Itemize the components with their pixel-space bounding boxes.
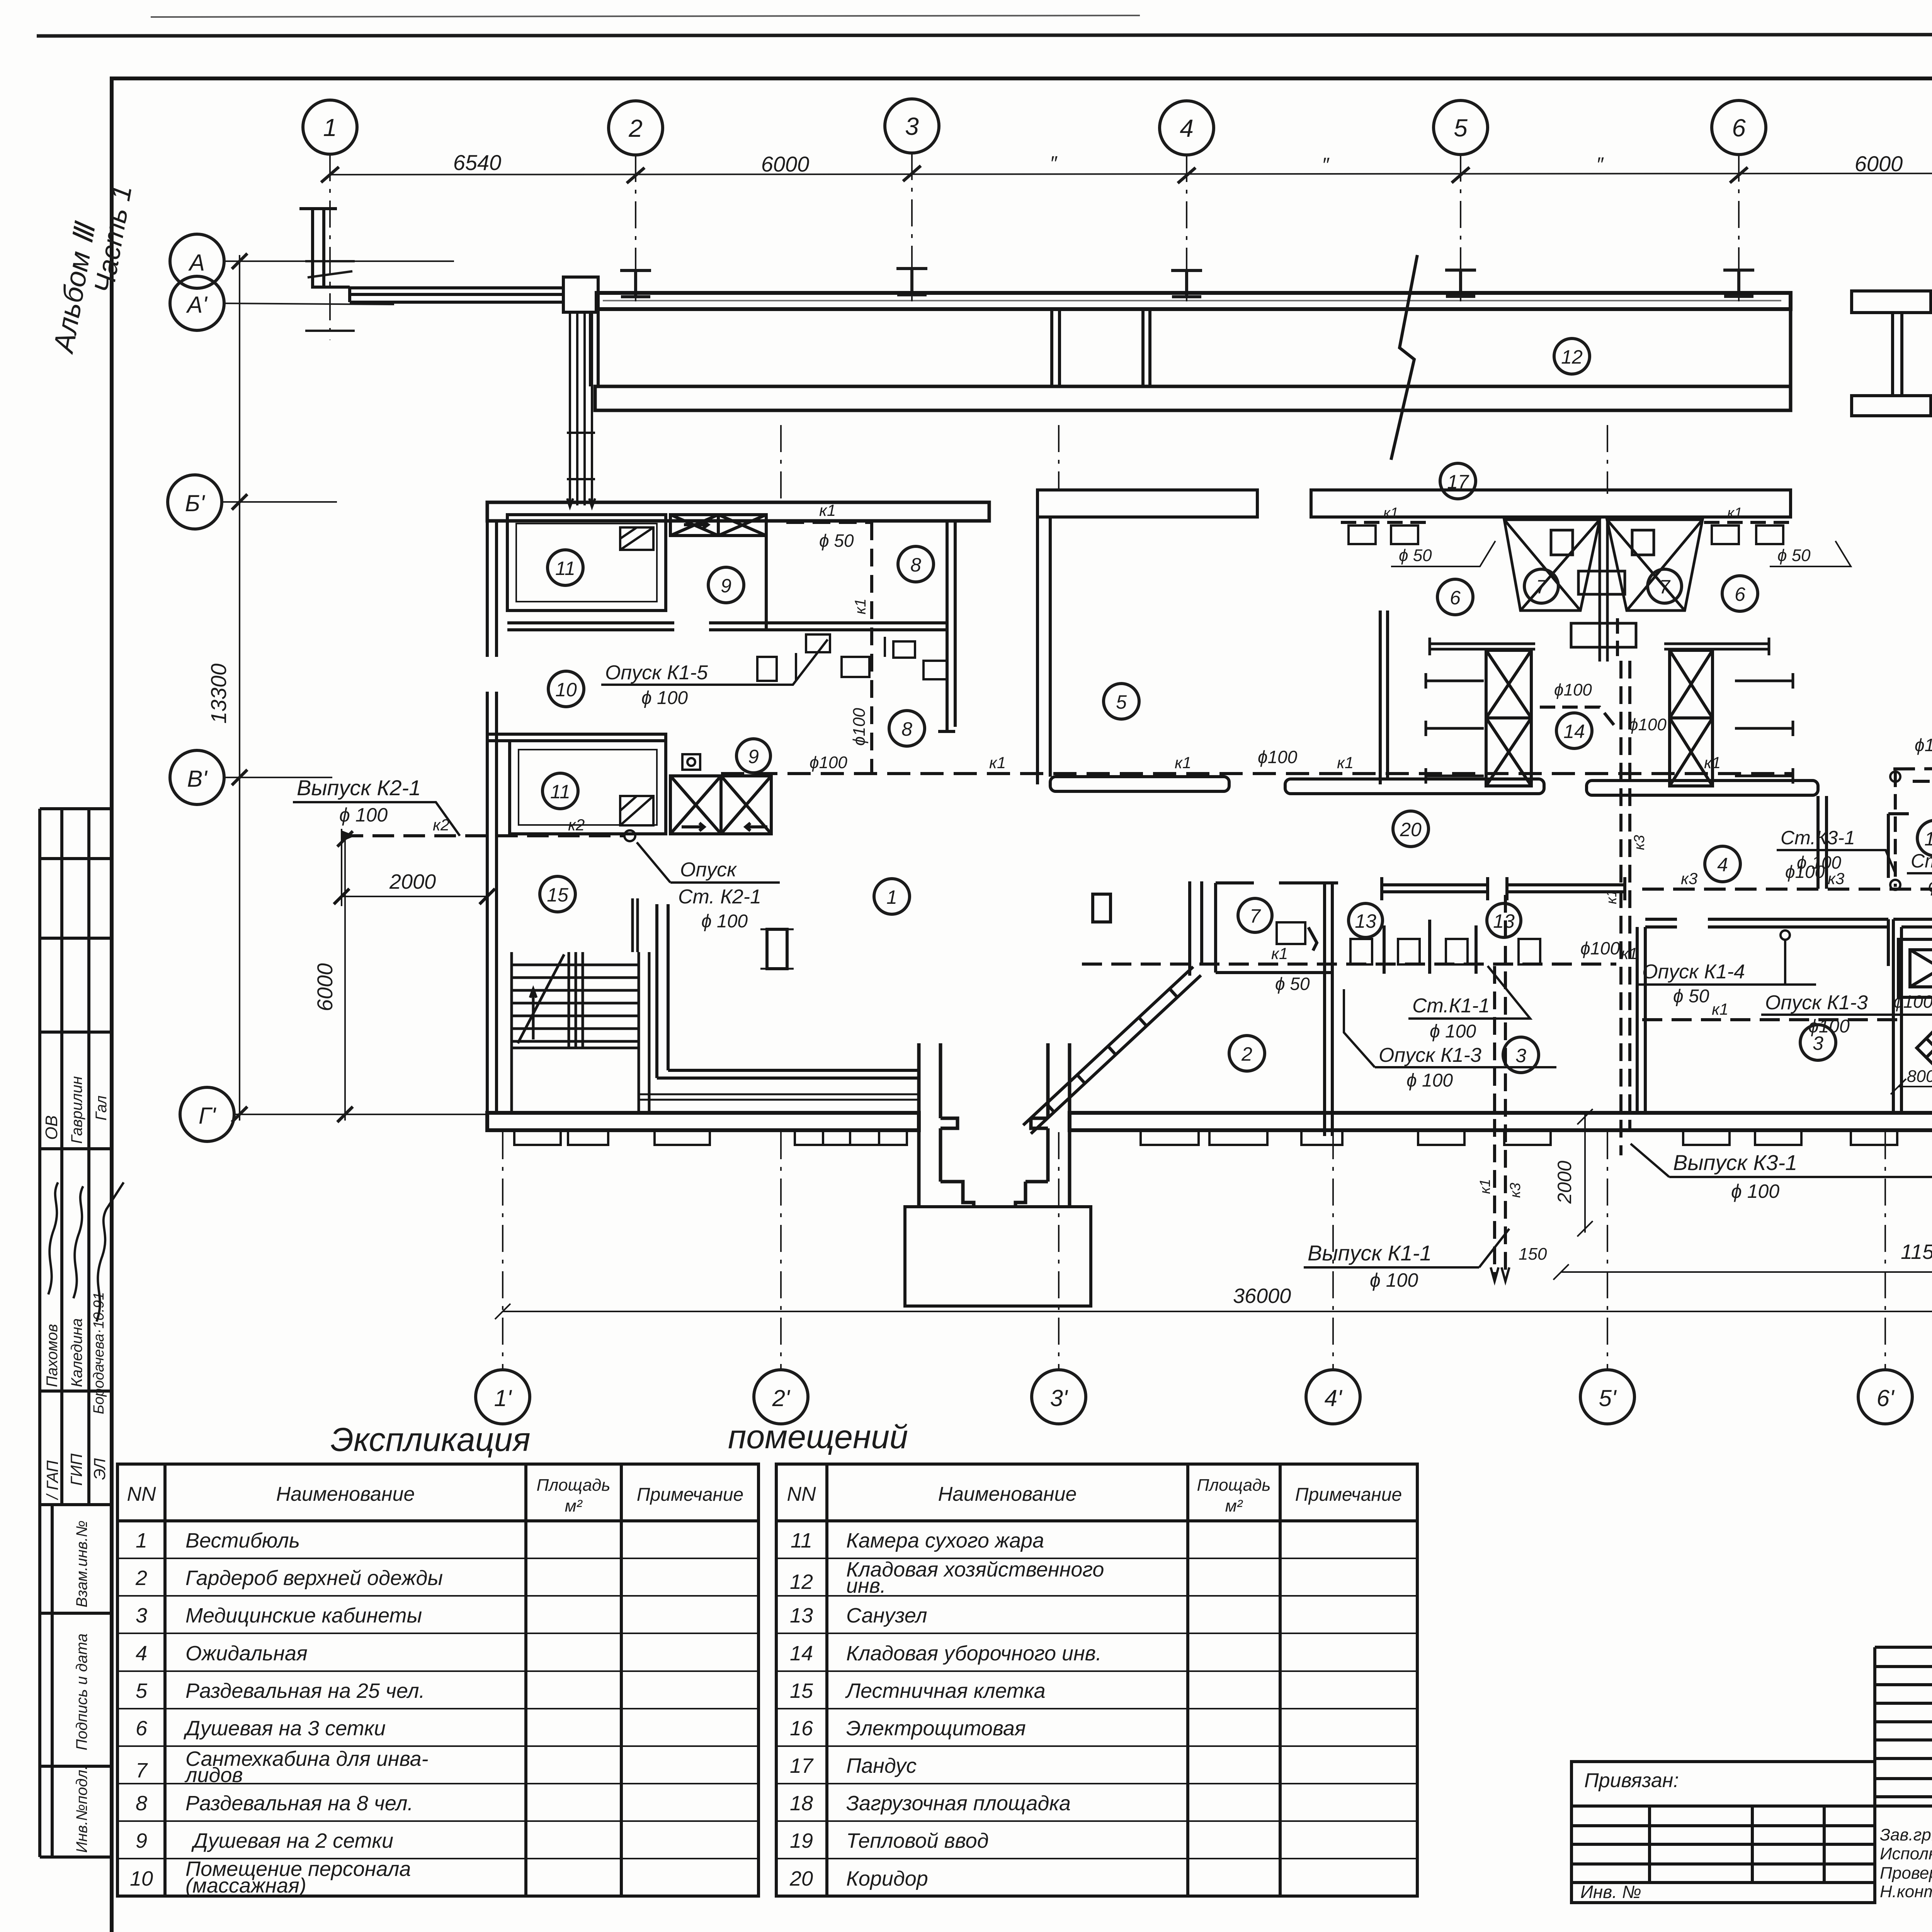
svg-text:(массажная): (массажная) [185, 1874, 306, 1897]
central partition with K1 stack [1571, 520, 1636, 662]
ticks on 13300 dim [232, 253, 247, 1122]
table 2 rows [789, 1529, 1104, 1890]
svg-text:Каледина: Каледина [68, 1318, 85, 1387]
west outer wall lower [487, 692, 497, 1128]
svg-text:к3: к3 [1507, 1183, 1524, 1198]
svg-text:Зав.гр.: Зав.гр. [1880, 1825, 1932, 1844]
axis А' leader line [224, 303, 394, 304]
svg-text:помещений: помещений [728, 1418, 908, 1456]
svg-text:Опуск К1-5: Опуск К1-5 [605, 662, 708, 684]
svg-text:3: 3 [136, 1604, 147, 1627]
wall B' main band: segment rooms5L top [1037, 490, 1257, 517]
room circle 7 cabin [1238, 898, 1272, 932]
room circle 6 right [1722, 576, 1758, 611]
table 2 grid [776, 1464, 1417, 1896]
corridor 20 top wall seg 2 [1285, 779, 1544, 794]
svg-text:NN: NN [127, 1483, 156, 1505]
axis circle 3 [885, 99, 939, 153]
svg-text:11: 11 [791, 1529, 812, 1552]
room circle 8 upper [898, 546, 934, 582]
svg-text:Наименование: Наименование [276, 1483, 415, 1505]
svg-text:Душевая на 3 сетки: Душевая на 3 сетки [184, 1717, 386, 1740]
axis circle 4 [1160, 101, 1214, 155]
svg-text:4: 4 [136, 1642, 147, 1665]
room 10 bottom wall [487, 734, 666, 741]
svg-text:ϕ100: ϕ100 [1629, 715, 1667, 734]
svg-text:Экспликация: Экспликация [330, 1421, 530, 1458]
svg-text:Инв.№подл.: Инв.№подл. [73, 1765, 90, 1853]
svg-text:5: 5 [1454, 114, 1468, 142]
room circle 11 lower [543, 773, 578, 809]
K3 pipe short run [1913, 780, 1932, 783]
svg-text:Ст.К1-1: Ст.К1-1 [1412, 995, 1490, 1017]
bench stubs room 6 left [1426, 673, 1484, 784]
svg-text:″: ″ [1322, 154, 1330, 176]
K1 riser vertical dashed [870, 522, 873, 774]
corner block at stair head [563, 277, 598, 312]
axis circle 2 [609, 101, 663, 155]
room circle 8 lower [889, 711, 925, 746]
room circle 2 [1229, 1036, 1265, 1071]
svg-text:Опуск К1-3: Опуск К1-3 [1765, 992, 1868, 1014]
svg-text:16: 16 [790, 1717, 813, 1740]
svg-text:11: 11 [555, 558, 575, 579]
svg-text:к3: к3 [1681, 869, 1697, 888]
svg-text:9: 9 [136, 1829, 147, 1852]
left vertical dimension line 13300 [239, 255, 240, 1121]
dim 2000 bottom center [1577, 1109, 1593, 1236]
svg-text:10: 10 [555, 679, 577, 701]
svg-text:Н.контр.: Н.контр. [1880, 1882, 1932, 1901]
svg-text:ϕ 50: ϕ 50 [1777, 546, 1811, 565]
svg-text:к1: к1 [852, 599, 869, 614]
axis circle 5 [1434, 100, 1488, 155]
svg-text:Опуск К1-3: Опуск К1-3 [1379, 1044, 1481, 1066]
sauna stove lower (hatched) [620, 796, 653, 825]
svg-text:9: 9 [748, 746, 759, 767]
svg-text:6: 6 [1732, 114, 1746, 142]
axis circle В' [170, 750, 224, 804]
K1 pipe from room 9 (dashed) [786, 521, 872, 524]
tall crossed closet left (room 14) [1486, 650, 1531, 786]
K1 riser center vertical [1616, 618, 1619, 663]
svg-text:к1: к1 [819, 501, 836, 519]
room 12 partition b [1143, 309, 1150, 386]
svg-text:6000: 6000 [761, 152, 810, 176]
svg-text:ϕ100: ϕ100 [1915, 735, 1932, 755]
axis circle 2' [754, 1370, 808, 1424]
K2 pipe run west [342, 834, 624, 837]
room circle 18 [1917, 820, 1932, 856]
axis stems to dimension line [330, 153, 1932, 340]
corridor wall under rooms 11/9 [507, 623, 947, 630]
svg-text:Площадь: Площадь [1197, 1476, 1270, 1495]
svg-text:20: 20 [1400, 819, 1422, 840]
room circle 13 right [1487, 903, 1521, 937]
corridor 20 top wall seg 3 [1587, 781, 1818, 795]
svg-text:1: 1 [886, 886, 897, 908]
west outer wall upper [487, 510, 497, 657]
dim 800 horizontal [1891, 1079, 1932, 1094]
room circle 3 left [1503, 1037, 1539, 1073]
room circle 15 [540, 876, 575, 912]
svg-text:Б': Б' [185, 490, 206, 516]
room circle 7 right [1648, 569, 1682, 603]
wall between room2 and room3 band [1325, 883, 1332, 1136]
room circle 14 [1556, 713, 1592, 748]
svg-text:к1: к1 [1712, 1000, 1728, 1018]
dim 2000 west [342, 829, 487, 906]
svg-text:19: 19 [790, 1829, 813, 1852]
svg-text:12: 12 [1561, 346, 1583, 368]
svg-text:Г': Г' [199, 1103, 217, 1129]
rooms 13 top walls [1382, 885, 1625, 892]
axis circle Б' [168, 475, 222, 529]
svg-text:ЭЛ: ЭЛ [90, 1458, 109, 1480]
vestibule inner south wall [657, 1070, 920, 1078]
svg-text:Кладовая уборочного инв.: Кладовая уборочного инв. [846, 1642, 1102, 1665]
svg-text:10: 10 [130, 1867, 153, 1890]
svg-text:11: 11 [550, 781, 570, 803]
svg-text:Опуск: Опуск [680, 859, 737, 881]
axis В' leader line [224, 777, 332, 778]
svg-text:Гал: Гал [93, 1095, 110, 1121]
rooms 16/18 walls [1888, 814, 1932, 885]
svg-text:Душевая на 2 сетки: Душевая на 2 сетки [191, 1829, 393, 1852]
axis circle А' [170, 276, 224, 330]
room 3 right walls [1637, 919, 1888, 1113]
room circle 11 upper [548, 550, 583, 585]
K3 main run [1642, 888, 1932, 891]
wall B' segment rooms 6-7 top [1311, 490, 1791, 517]
svg-text:Санузел: Санузел [846, 1604, 927, 1627]
sanitary fixtures rooms 7/8 middle [757, 634, 947, 681]
svg-text:4: 4 [1180, 114, 1194, 142]
wall A' (room 12 band bottom) [595, 386, 1791, 410]
hall column b [1093, 894, 1111, 922]
shower cells room 9 lower [670, 776, 771, 834]
svg-text:Лестничная клетка: Лестничная клетка [845, 1679, 1046, 1702]
svg-text:13: 13 [1355, 910, 1376, 932]
svg-text:Инв. №: Инв. № [1580, 1882, 1641, 1902]
svg-text:3: 3 [905, 112, 919, 140]
room circle 20 [1393, 811, 1429, 847]
table 1 rows [130, 1529, 443, 1897]
svg-text:м²: м² [565, 1497, 583, 1515]
room 7c walls (invalid cabin) [1216, 883, 1338, 973]
svg-text:ГИП: ГИП [67, 1453, 85, 1486]
svg-text:А: А [188, 250, 205, 276]
svg-text:Привязан:: Привязан: [1584, 1769, 1679, 1792]
svg-text:Выпуск К2-1: Выпуск К2-1 [297, 776, 421, 800]
room circle 17 (pandus) [1440, 463, 1476, 499]
axis circle 1 [303, 100, 357, 154]
sauna room 11 lower box [510, 741, 666, 834]
axis 1 cross ticks [305, 261, 355, 331]
WC partition stubs [1384, 920, 1476, 974]
svg-text:к2: к2 [568, 816, 585, 834]
svg-text:Ст. К2-1: Ст. К2-1 [678, 886, 761, 908]
H-shaped pier between wall openings [1852, 291, 1931, 416]
svg-text:7: 7 [1536, 576, 1548, 598]
K1 short elbow near room14 [1540, 707, 1615, 726]
K2 pipe run [1893, 767, 1932, 769]
svg-text:Камера сухого жара: Камера сухого жара [846, 1529, 1044, 1552]
svg-text:ϕ100: ϕ100 [1785, 862, 1825, 882]
faint secondary top line [151, 15, 1140, 17]
axis circle 1' [476, 1370, 530, 1424]
svg-text:к1: к1 [1727, 505, 1742, 521]
svg-text:Площадь: Площадь [536, 1476, 610, 1495]
axis circle А [170, 234, 224, 288]
svg-text:2: 2 [135, 1566, 147, 1590]
svg-text:к1: к1 [1337, 753, 1354, 772]
svg-text:ϕ 50: ϕ 50 [1399, 546, 1432, 565]
svg-text:″: ″ [1050, 152, 1058, 175]
svg-text:Выпуск К3-1: Выпуск К3-1 [1673, 1150, 1797, 1175]
svg-text:к2: к2 [433, 816, 449, 834]
svg-text:9: 9 [721, 575, 731, 597]
signature squiggles [48, 1182, 124, 1321]
svg-text:6000: 6000 [1855, 151, 1903, 176]
axis circle 5' [1580, 1370, 1634, 1424]
hall column a [767, 929, 787, 969]
shower stall trapezoid right (room 7) [1607, 520, 1702, 611]
svg-text:2: 2 [628, 114, 643, 142]
svg-text:Пахомов: Пахомов [44, 1324, 61, 1387]
svg-text:м²: м² [1225, 1497, 1243, 1515]
svg-text:ϕ 50: ϕ 50 [1275, 974, 1310, 994]
svg-text:Ст.К2-2: Ст.К2-2 [1911, 850, 1932, 872]
room circle 13 left [1349, 903, 1383, 937]
stair right wall extension [633, 898, 638, 952]
svg-text:инв.: инв. [846, 1574, 886, 1597]
svg-text:ϕ 50: ϕ 50 [1673, 986, 1709, 1007]
corridor/room4 partition [1818, 796, 1827, 889]
svg-text:Исполн.: Исполн. [1880, 1844, 1932, 1863]
svg-text:ϕ 100: ϕ 100 [641, 688, 688, 708]
toilets row [1350, 939, 1540, 964]
svg-text:5: 5 [1116, 691, 1127, 713]
svg-text:Провер.: Провер. [1880, 1864, 1932, 1883]
svg-text:2': 2' [772, 1385, 791, 1411]
svg-text:6000: 6000 [313, 963, 337, 1012]
svg-text:А': А' [186, 292, 208, 318]
drain box diagonal [1917, 1029, 1932, 1067]
svg-text:к1: к1 [1477, 1179, 1493, 1194]
svg-text:3': 3' [1050, 1385, 1068, 1411]
dimension ticks on top dim line [321, 166, 1932, 183]
room 19 box [1893, 919, 1932, 1113]
svg-text:3: 3 [1515, 1045, 1526, 1066]
break mark across band [1391, 255, 1417, 460]
svg-text:Раздевальная на 25 чел.: Раздевальная на 25 чел. [185, 1679, 425, 1702]
svg-text:Коридор: Коридор [846, 1867, 928, 1890]
svg-text:14: 14 [790, 1642, 813, 1665]
svg-text:5: 5 [136, 1679, 148, 1702]
column I-section marks on axes 2-7 [620, 269, 1932, 297]
axis circle 3' [1032, 1370, 1086, 1424]
entrance tambour wall right [1015, 1043, 1070, 1207]
top dimension line [329, 173, 1932, 175]
svg-text:4: 4 [1717, 854, 1728, 876]
svg-text:ϕ 100: ϕ 100 [701, 911, 748, 932]
svg-text:к1: к1 [1175, 753, 1191, 772]
revision grid [1875, 1647, 1932, 1903]
room 12 partition a [1052, 309, 1060, 386]
svg-text:17: 17 [790, 1754, 814, 1777]
svg-text:Опуск К1-4: Опуск К1-4 [1642, 961, 1745, 983]
right down pipes [1621, 661, 1630, 1155]
axis А leader line [224, 260, 454, 262]
svg-text:ϕ 100: ϕ 100 [1406, 1070, 1453, 1091]
sauna stove upper (hatched) [620, 527, 653, 550]
svg-text:Гаврилин: Гаврилин [68, 1076, 85, 1144]
svg-text:Взам.инв.№: Взам.инв.№ [73, 1520, 90, 1607]
small pipe dot K1-4 [1781, 930, 1790, 940]
svg-text:В': В' [187, 766, 208, 792]
svg-text:ϕ100: ϕ100 [850, 708, 869, 746]
partition room11/9 [664, 521, 667, 611]
shower stall trapezoid left (room 7) [1504, 520, 1600, 611]
svg-text:ϕ 50: ϕ 50 [819, 531, 854, 551]
svg-text:13300: 13300 [206, 663, 231, 724]
svg-text:к1: к1 [1704, 753, 1721, 772]
wall A-axis left thin double portion [324, 287, 563, 302]
room circle 7 left [1524, 569, 1558, 603]
svg-text:Вестибюль: Вестибюль [185, 1529, 300, 1552]
table 1 grid [117, 1464, 759, 1896]
svg-text:6: 6 [1735, 583, 1745, 605]
svg-text:к3: к3 [1631, 835, 1648, 850]
svg-text:Примечание: Примечание [1295, 1485, 1402, 1505]
room circle 12 [1554, 338, 1590, 374]
central down pipes K1/K3 [1495, 895, 1505, 1279]
svg-text:6: 6 [1450, 587, 1461, 609]
svg-text:к1: к1 [989, 753, 1006, 772]
svg-text:ϕ100: ϕ100 [1554, 680, 1592, 699]
axis circle 6 [1712, 100, 1766, 155]
svg-text:Выпуск К1-1: Выпуск К1-1 [1308, 1241, 1432, 1265]
corridor 20 top wall seg 1 (room 5L bottom) [1050, 777, 1229, 791]
svg-text:2000: 2000 [389, 870, 436, 893]
axis circle Г' [180, 1087, 234, 1141]
riser St.K3-1 vertical [1894, 772, 1897, 887]
svg-text:Гардероб верхней одежды: Гардероб верхней одежды [185, 1566, 443, 1590]
svg-text:к3: к3 [1828, 869, 1844, 888]
axis Б' leader line [222, 501, 337, 503]
room 14 top walls [1430, 638, 1769, 655]
stair south wall extra lines [638, 1094, 919, 1100]
K1 pipe room 3 right [1642, 1018, 1901, 1021]
svg-text:1': 1' [494, 1385, 512, 1411]
svg-text:8: 8 [910, 554, 921, 576]
left vertical dimension line 6000 [344, 839, 346, 1121]
K1 main corridor pipe [721, 772, 1793, 775]
wall B' west wing top [487, 502, 989, 521]
svg-text:2000: 2000 [1554, 1161, 1575, 1204]
svg-text:к1: к1 [1271, 944, 1288, 963]
svg-text:20: 20 [789, 1867, 813, 1890]
svg-text:18: 18 [790, 1792, 813, 1815]
bench stubs room 6 right [1735, 673, 1793, 784]
wall Г' (south outer wall) [487, 1113, 919, 1130]
svg-text:7: 7 [136, 1759, 148, 1782]
svg-text:Загрузочная площадка: Загрузочная площадка [846, 1792, 1071, 1815]
room circle 4 [1705, 846, 1740, 882]
svg-text:лидов: лидов [184, 1764, 243, 1787]
svg-text:NN: NN [787, 1483, 816, 1505]
svg-text:7: 7 [1250, 905, 1261, 927]
hall/room7c west wall [1190, 881, 1202, 976]
axis Г' leader line [234, 1114, 488, 1115]
svg-text:12: 12 [790, 1570, 813, 1594]
room 6 left wall [1380, 611, 1388, 784]
foundation vents under south wall [514, 1130, 1932, 1145]
shower cells room 9 upper (crossed) [670, 515, 766, 536]
tall crossed closet right (room 14) [1670, 650, 1713, 786]
svg-text:Подпись и дата: Подпись и дата [73, 1633, 90, 1750]
svg-text:1: 1 [136, 1529, 147, 1552]
svg-text:Раздевальная на 8 чел.: Раздевальная на 8 чел. [185, 1792, 413, 1815]
room 7c sink [1277, 922, 1305, 944]
svg-text:15: 15 [790, 1679, 813, 1702]
riser bundle left (4 pipes) [567, 311, 595, 507]
svg-text:/ ГАП: / ГАП [43, 1460, 61, 1500]
svg-text:Пандус: Пандус [846, 1754, 917, 1777]
svg-text:ϕ 100: ϕ 100 [1928, 876, 1932, 896]
axis circle 4' [1306, 1370, 1360, 1424]
svg-text:800: 800 [1907, 1067, 1932, 1086]
room circle 10 [548, 671, 584, 707]
svg-text:4': 4' [1325, 1385, 1343, 1411]
svg-text:ϕ 100: ϕ 100 [1731, 1180, 1779, 1202]
svg-text:к1: к1 [1383, 505, 1398, 521]
wall A-axis main thick segment [597, 293, 1791, 309]
svg-text:8: 8 [136, 1792, 147, 1815]
svg-text:1: 1 [323, 114, 337, 141]
svg-text:ОВ: ОВ [42, 1115, 61, 1140]
privyazan box [1571, 1762, 1875, 1903]
svg-text:ϕ 100: ϕ 100 [339, 804, 388, 826]
room 5 left walls [1037, 517, 1050, 784]
dim 11560 [1553, 1264, 1932, 1280]
svg-text:ϕ 100: ϕ 100 [1430, 1021, 1476, 1042]
room 12 right end wall [1789, 294, 1793, 410]
svg-text:ϕ100: ϕ100 [1580, 938, 1620, 958]
washbasin row right [1704, 522, 1793, 544]
vestibule inner west wall [657, 904, 668, 1078]
svg-text:Примечание: Примечание [637, 1485, 743, 1505]
svg-text:к1: к1 [1604, 889, 1620, 904]
room circle 1 (vestibule) [874, 879, 910, 914]
svg-text:6540: 6540 [453, 150, 502, 175]
axis circle 6' [1858, 1370, 1912, 1424]
entrance tambour wall left [919, 1043, 974, 1207]
svg-text:6': 6' [1877, 1385, 1895, 1411]
svg-text:18: 18 [1924, 828, 1932, 850]
room circle 6 left [1437, 579, 1473, 615]
sink symbol room 9 lower [682, 754, 700, 770]
bottom axis stems [503, 425, 1932, 1370]
svg-text:Медицинские кабинеты: Медицинские кабинеты [185, 1604, 422, 1627]
room circle 9 upper [708, 567, 744, 603]
svg-text:2: 2 [1241, 1043, 1252, 1065]
svg-text:ϕ 100: ϕ 100 [1370, 1269, 1418, 1291]
svg-text:″: ″ [1596, 153, 1604, 176]
room 8 east wall (L-shaped) [938, 521, 955, 731]
svg-text:Ожидальная: Ожидальная [185, 1642, 308, 1665]
